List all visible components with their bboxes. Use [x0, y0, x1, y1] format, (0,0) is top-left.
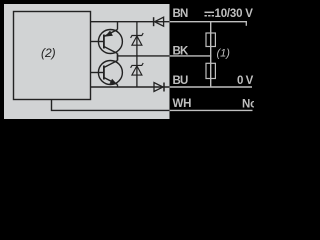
- transistor Q1 PNP: [91, 22, 123, 54]
- svg-text:BN: BN: [173, 8, 189, 20]
- collector junction wire between Q1 and Q2 crossing BK: [117, 54, 119, 61]
- sensor box (2): [14, 12, 91, 100]
- zener diode D2 (BK to BU): [131, 56, 144, 87]
- load L2 stub to BU wire: [210, 79, 212, 88]
- svg-text:(1): (1): [217, 48, 231, 60]
- svg-text:WH: WH: [173, 98, 192, 110]
- load L1 stub to BK wire: [210, 47, 212, 56]
- BK output wire (black side): [170, 55, 212, 57]
- BU wire (grey side): [91, 86, 170, 88]
- svg-text:0 V: 0 V: [237, 75, 254, 87]
- top rail wire (BN, black side): [170, 21, 247, 23]
- svg-text:No: No: [242, 99, 254, 111]
- transistor Q2 NPN: [91, 54, 123, 88]
- svg-text:(2): (2): [41, 46, 56, 60]
- load L2 box (BK to BU): [206, 63, 215, 78]
- svg-text:10/30 V: 10/30 V: [215, 8, 254, 20]
- load L1 stub from rail: [210, 22, 212, 33]
- diode D4 on BU wire (cathode right, open triangle): [154, 83, 164, 92]
- Q2 NPN emitter arrow (points outward): [110, 79, 118, 85]
- grey schematic panel: [4, 4, 170, 119]
- svg-text:BK: BK: [173, 46, 190, 58]
- WH wire (black side): [170, 109, 253, 111]
- node tick at BN rail right end: [245, 22, 247, 26]
- diode D3 on top rail (cathode left, open triangle): [154, 17, 164, 26]
- black canvas background: [0, 0, 254, 123]
- DC symbol: [205, 11, 215, 13]
- zener diode D1 (top, rail to BK): [131, 22, 144, 56]
- BK output wire (grey side): [118, 55, 170, 57]
- svg-text:BU: BU: [173, 75, 189, 87]
- load L1 box (BN to BK): [206, 33, 215, 47]
- top rail wire (BN, grey side): [91, 21, 170, 23]
- load L2 stub from BK wire: [210, 56, 212, 63]
- BU wire (black side): [170, 86, 252, 88]
- WH wire from sensor box bottom: [52, 100, 170, 111]
- Q1 PNP emitter arrow (points toward base): [105, 31, 113, 37]
